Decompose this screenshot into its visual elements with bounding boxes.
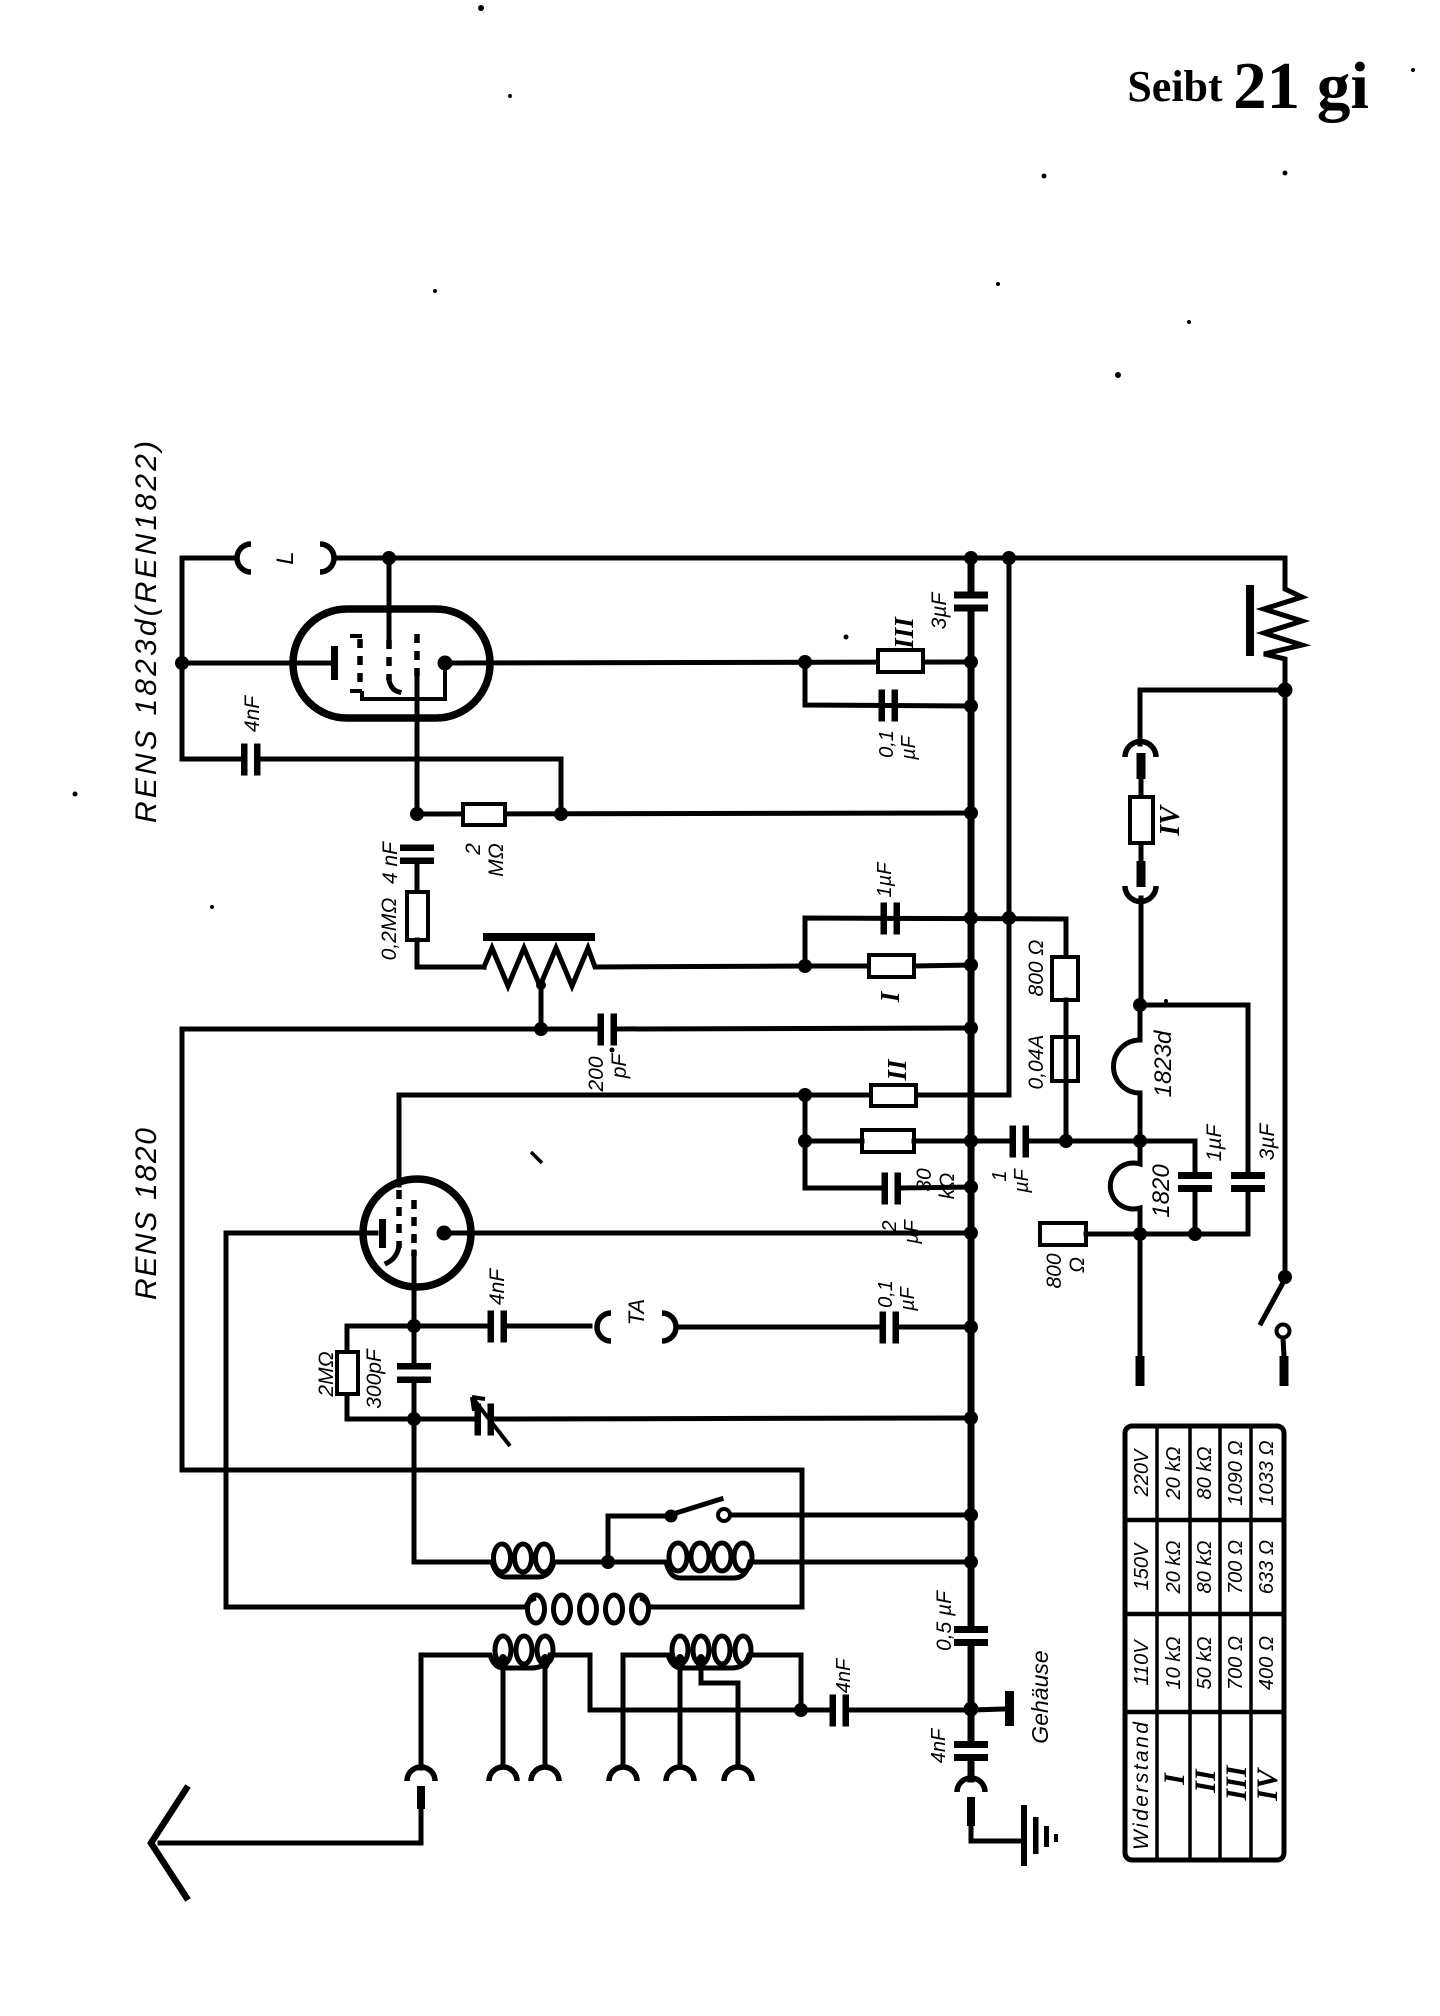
socket coil B entry <box>609 1767 637 1781</box>
potentiometer wiper tap <box>539 984 544 1029</box>
scan speckles <box>478 5 484 11</box>
tube U1 anode dot pin <box>438 656 453 671</box>
node TA left <box>407 1319 421 1333</box>
node rheostat bottom <box>1278 683 1293 698</box>
wire fuse to 1uF node <box>1064 1081 1069 1141</box>
wire feedback frame y1470 <box>182 1470 802 1607</box>
svg-text:1820: 1820 <box>1148 1164 1175 1218</box>
coil L plug-in arcs <box>237 544 334 572</box>
jack TA arcs <box>597 1313 676 1341</box>
node bus III <box>964 655 978 669</box>
tube U2 anode dot pin <box>437 1226 452 1241</box>
svg-text:20 kΩ: 20 kΩ <box>1163 1446 1185 1500</box>
node screen x417 <box>410 807 424 821</box>
node heater stem y1234 <box>1133 1227 1147 1241</box>
resistor II <box>871 1085 916 1106</box>
svg-text:800: 800 <box>1043 1253 1066 1288</box>
capacitor 4nF grid top-left <box>241 744 248 776</box>
node 2M right x561 <box>554 807 568 821</box>
capacitor 1uF heater <box>1010 1126 1017 1158</box>
capacitor 0,5uF bus <box>954 1626 988 1633</box>
antenna coil B primary <box>623 1655 801 1710</box>
capacitor 3uF filter x1248 <box>1246 1005 1251 1234</box>
table column lines <box>1157 1426 1251 1860</box>
tube U2 grid dashed <box>396 1190 402 1248</box>
capacitor 2uF <box>882 1173 889 1205</box>
node bus 200pF <box>964 1021 978 1035</box>
node 1uF filter y1234 <box>1188 1227 1202 1241</box>
node bus 1uF <box>964 911 978 925</box>
capacitor 4nF chassis left <box>830 1695 837 1727</box>
plug earth <box>967 1797 975 1826</box>
heater 1823d loop <box>1114 1005 1141 1141</box>
wire grid coil drop x414 <box>412 1419 417 1562</box>
capacitor 4nF bus bottom <box>954 1741 988 1748</box>
tube U1 RENS 1823d envelope <box>293 609 490 718</box>
svg-text:Seibt: Seibt <box>1127 62 1223 111</box>
potentiometer zigzag <box>484 948 805 986</box>
wire T1 screen lead exits bottom <box>415 676 420 814</box>
svg-text:µF: µF <box>897 1285 919 1312</box>
capacitor 1uF filter x1195 <box>1193 1141 1198 1234</box>
node bus switch <box>964 1508 978 1522</box>
socket antenna tap 2 <box>531 1767 559 1781</box>
svg-text:Ω: Ω <box>1066 1257 1089 1273</box>
tap drop antenna coil A2 <box>540 1654 550 1670</box>
svg-text:µF: µF <box>1011 1167 1033 1194</box>
tube U1 screen grid dashed <box>414 634 420 676</box>
svg-text:0,2MΩ: 0,2MΩ <box>378 898 401 961</box>
svg-text:1µF: 1µF <box>874 861 896 898</box>
capacitor 200pF <box>598 1014 605 1046</box>
rheostat mains dropper <box>1264 558 1302 690</box>
node 30k left <box>798 1134 812 1148</box>
wire resistor III bypass drop x805 <box>805 662 971 706</box>
svg-text:4nF: 4nF <box>486 1268 509 1305</box>
socket antenna input <box>407 1767 435 1781</box>
resistor lamp IV <box>1139 779 1144 861</box>
svg-text:µF: µF <box>898 734 920 761</box>
tap drop coil B2 jog <box>696 1654 706 1670</box>
wire switch drop x608 <box>606 1516 611 1562</box>
svg-text:700 Ω: 700 Ω <box>1225 1636 1247 1690</box>
node heater x1140 <box>1133 1134 1147 1148</box>
capacitor 0,1uF top <box>879 690 886 722</box>
wire heater stem to terminal <box>1138 1234 1143 1356</box>
switch mains pivot <box>1278 1270 1292 1284</box>
tap drop coil B1 <box>675 1654 685 1670</box>
svg-text:10 kΩ: 10 kΩ <box>1163 1636 1185 1689</box>
node bus screen <box>964 806 978 820</box>
svg-text:pF: pF <box>608 1053 631 1080</box>
capacitor 300pF <box>412 1326 417 1419</box>
resistor III <box>878 650 923 672</box>
wire coil B entry drop <box>621 1655 626 1767</box>
wire mains rail x1285 <box>1283 690 1288 1277</box>
wire switch branch y1516 <box>608 1515 971 1516</box>
node pot out x805 <box>798 959 812 973</box>
resistor 2MOhm grid leak <box>347 1326 414 1419</box>
wire 0,2M to potentiometer y966 <box>417 940 484 967</box>
svg-text:1: 1 <box>989 1170 1011 1181</box>
svg-text:Gehäuse: Gehäuse <box>1027 1650 1053 1743</box>
wire left drop x182 lower <box>180 1029 185 1470</box>
socket earth on bus <box>957 1778 985 1792</box>
svg-text:400 Ω: 400 Ω <box>1256 1636 1278 1690</box>
tube U1 control grid dashed <box>386 640 392 680</box>
lamp socket arc bottom <box>1125 886 1156 902</box>
wire lamp stem upper <box>1138 690 1143 744</box>
tube U1 anode bracket <box>362 670 445 699</box>
wire switch to terminal <box>1283 1338 1284 1356</box>
arrow variable cap <box>472 1397 510 1446</box>
wire top HT rail y558 <box>182 556 1285 561</box>
main bus x971 <box>968 558 975 1779</box>
node left rail cathode junction <box>175 656 189 670</box>
svg-text:0,1: 0,1 <box>875 1280 897 1308</box>
socket antenna tap 1 <box>489 1767 517 1781</box>
capacitor 0,1uF TA <box>880 1312 887 1344</box>
wire 30k branch x805 <box>805 1095 881 1188</box>
resistor 0,2MOhm <box>407 892 428 940</box>
svg-text:II: II <box>882 1058 912 1082</box>
wire U2 anode to bus y1233 <box>451 1231 971 1236</box>
node bus 2uF <box>964 1180 978 1194</box>
node rail2 top <box>1002 551 1016 565</box>
svg-text:80 kΩ: 80 kΩ <box>1194 1446 1216 1499</box>
svg-text:200: 200 <box>585 1056 608 1092</box>
svg-text:I: I <box>875 990 905 1003</box>
wire 1uF branch x805 <box>805 918 1066 966</box>
node coil row x608 <box>601 1555 615 1569</box>
wire anode rail to heater stem <box>1086 1232 1248 1237</box>
node bus top <box>964 551 978 565</box>
socket coil B tap 1 <box>666 1767 694 1781</box>
node bus anode <box>964 1226 978 1240</box>
svg-text:1090 Ω: 1090 Ω <box>1225 1440 1247 1505</box>
svg-text:4nF: 4nF <box>241 695 264 732</box>
tube U1 cathode bar <box>331 646 338 680</box>
capacitor variable tuning <box>475 1404 482 1436</box>
svg-text:IV: IV <box>1155 804 1186 837</box>
svg-text:RENS 1820: RENS 1820 <box>130 1128 163 1300</box>
lamp plug bottom <box>1137 861 1146 887</box>
switch mains contact <box>1277 1325 1290 1338</box>
HT rail 2 x1009 <box>916 558 1009 1095</box>
svg-text:80 kΩ: 80 kΩ <box>1194 1540 1216 1593</box>
table row lines <box>1125 1520 1284 1712</box>
table voltage-resistance outer frame <box>1125 1426 1284 1860</box>
wire earth lead <box>971 1826 1023 1841</box>
wire grid RENS1820 y1095 <box>399 1093 871 1098</box>
wire ground return y1710 <box>590 1709 1005 1710</box>
svg-text:1033 Ω: 1033 Ω <box>1256 1440 1278 1505</box>
node bus 30k <box>964 1134 978 1148</box>
node heater tap x1066 <box>1059 1134 1073 1148</box>
socket coil B tap 2 <box>724 1767 752 1781</box>
tube U1 grid 1 dashed <box>350 636 362 691</box>
svg-text:I: I <box>1158 1772 1191 1786</box>
svg-text:III: III <box>1220 1764 1253 1801</box>
wire 2uF to bus <box>901 1187 971 1188</box>
antenna symbol arrow <box>151 1786 188 1900</box>
resistor 2 MOhm grid <box>463 804 505 825</box>
svg-text:1µF: 1µF <box>1203 1124 1226 1162</box>
svg-text:110V: 110V <box>1131 1639 1153 1686</box>
tube U2 RENS 1820 envelope <box>363 1179 471 1287</box>
wire T1 anode to resistor III y663 <box>451 662 971 663</box>
wire screen feed y814 <box>417 813 971 814</box>
wire 30k to bus <box>805 1139 971 1144</box>
capacitor 4nF TA <box>488 1311 495 1343</box>
lamp socket arc top <box>1125 741 1156 757</box>
heater 1820 loop <box>1110 1141 1140 1234</box>
rheostat slider bar <box>1246 585 1254 656</box>
switch wave pivot <box>665 1510 678 1523</box>
node bus 0,1uF <box>964 699 978 713</box>
coil L1 grid winding <box>414 1562 604 1577</box>
svg-text:3µF: 3µF <box>1256 1123 1279 1161</box>
svg-text:150V: 150V <box>1131 1542 1153 1590</box>
tap drop antenna coil A1 <box>498 1654 508 1670</box>
svg-text:20 kΩ: 20 kΩ <box>1163 1540 1185 1594</box>
node tap junction <box>534 1022 548 1036</box>
wire bus to heater rail y1141 <box>971 1139 1195 1144</box>
wire cathode drop x226 <box>224 1233 229 1607</box>
node top of grid coil <box>382 551 396 565</box>
svg-text:III: III <box>889 616 919 650</box>
svg-text:220V: 220V <box>1131 1448 1153 1497</box>
terminal plug heater <box>1136 1356 1145 1386</box>
wire heater top link y1005 <box>1140 1003 1248 1008</box>
resistor 800 Ohm bias upper <box>1052 957 1078 1000</box>
wire cathode lead T1 <box>182 661 330 666</box>
wire 4nF to 0,2M <box>415 864 420 892</box>
svg-text:II: II <box>1189 1768 1222 1794</box>
svg-text:50 kΩ: 50 kΩ <box>1194 1636 1216 1689</box>
svg-text:2: 2 <box>462 843 485 856</box>
antenna coil A primary <box>421 1655 590 1710</box>
node bus I <box>964 958 978 972</box>
wire cathode RENS1820 y1233 <box>226 1231 376 1236</box>
resistor I <box>805 965 971 966</box>
svg-text:L: L <box>272 551 299 564</box>
ground symbol <box>1021 1805 1027 1866</box>
svg-text:633 Ω: 633 Ω <box>1256 1540 1278 1594</box>
wire tuning line y1419 <box>414 1418 971 1419</box>
potentiometer track bar <box>483 933 595 941</box>
svg-text:RENS 1823d(REN1822): RENS 1823d(REN1822) <box>130 441 163 823</box>
svg-text:800 Ω: 800 Ω <box>1025 940 1048 997</box>
svg-text:MΩ: MΩ <box>485 843 508 876</box>
wire TA line y1326 <box>414 1326 971 1327</box>
wire lamp branch y690 <box>1140 688 1285 693</box>
wire antenna lead <box>160 1809 421 1843</box>
wire 200pF line y1029 <box>182 1028 971 1029</box>
svg-text:3µF: 3µF <box>928 592 951 630</box>
node bus tuning <box>964 1411 978 1425</box>
svg-text:4 nF: 4 nF <box>379 841 402 884</box>
wire U2 screen exits bottom x414 <box>412 1252 417 1326</box>
capacitor 3uF top bus <box>954 592 988 599</box>
svg-text:2MΩ: 2MΩ <box>315 1351 338 1397</box>
svg-text:IV: IV <box>1251 1766 1284 1802</box>
svg-text:700 Ω: 700 Ω <box>1225 1540 1247 1594</box>
switch wave contact <box>718 1509 730 1521</box>
chassis bar Gehaeuse <box>1005 1691 1014 1726</box>
capacitor 1uF mid <box>881 903 888 935</box>
resistor 30 kOhm <box>862 1130 914 1152</box>
wire 4nF to grid return y759 <box>182 759 561 814</box>
svg-text:21 gi: 21 gi <box>1233 49 1369 123</box>
capacitor 4nF coupling x417 <box>400 845 434 852</box>
switch mains lever <box>1261 1279 1285 1323</box>
wire grid lead from top x399 <box>397 1095 402 1185</box>
lamp plug top <box>1137 753 1146 779</box>
node bus chassis <box>964 1702 979 1717</box>
svg-text:0,5 µF: 0,5 µF <box>933 1590 956 1651</box>
coil L3 secondary winding <box>226 1605 802 1610</box>
node rail2 1uF <box>1002 911 1016 925</box>
tube U2 screen dashed <box>411 1200 417 1256</box>
fuse 0,04A <box>1052 1037 1078 1081</box>
svg-text:0,1: 0,1 <box>876 730 898 758</box>
plug antenna <box>417 1786 425 1809</box>
svg-text:4nF: 4nF <box>833 1657 855 1693</box>
node anode wire x805 <box>798 655 812 669</box>
node grid leak bottom <box>407 1412 421 1426</box>
svg-text:4nF: 4nF <box>928 1727 950 1763</box>
node heater top <box>1133 998 1147 1012</box>
svg-text:1823d: 1823d <box>1150 1030 1177 1097</box>
wire lamp stem lower <box>1139 898 1144 1005</box>
svg-text:300pF: 300pF <box>363 1348 386 1409</box>
node grid x805 <box>798 1088 812 1102</box>
wire antenna entry drop <box>419 1655 424 1768</box>
wire left vertical x182 upper <box>180 558 185 759</box>
wire grid lead down into tube T1 <box>387 558 392 640</box>
terminal plug mains <box>1280 1356 1289 1386</box>
coil L2 reaction winding <box>612 1562 971 1578</box>
wire 800 to fuse <box>1064 1000 1069 1037</box>
resistor 800 Ohm heater <box>1040 1223 1086 1245</box>
node ground return x801 <box>794 1703 808 1717</box>
svg-text:TA: TA <box>624 1299 649 1325</box>
svg-text:0,04A: 0,04A <box>1025 1035 1048 1090</box>
switch wave lever <box>673 1499 721 1514</box>
node bus TA <box>964 1320 978 1334</box>
tube U2 cathode bar <box>379 1219 386 1248</box>
node bus coil <box>964 1555 978 1569</box>
